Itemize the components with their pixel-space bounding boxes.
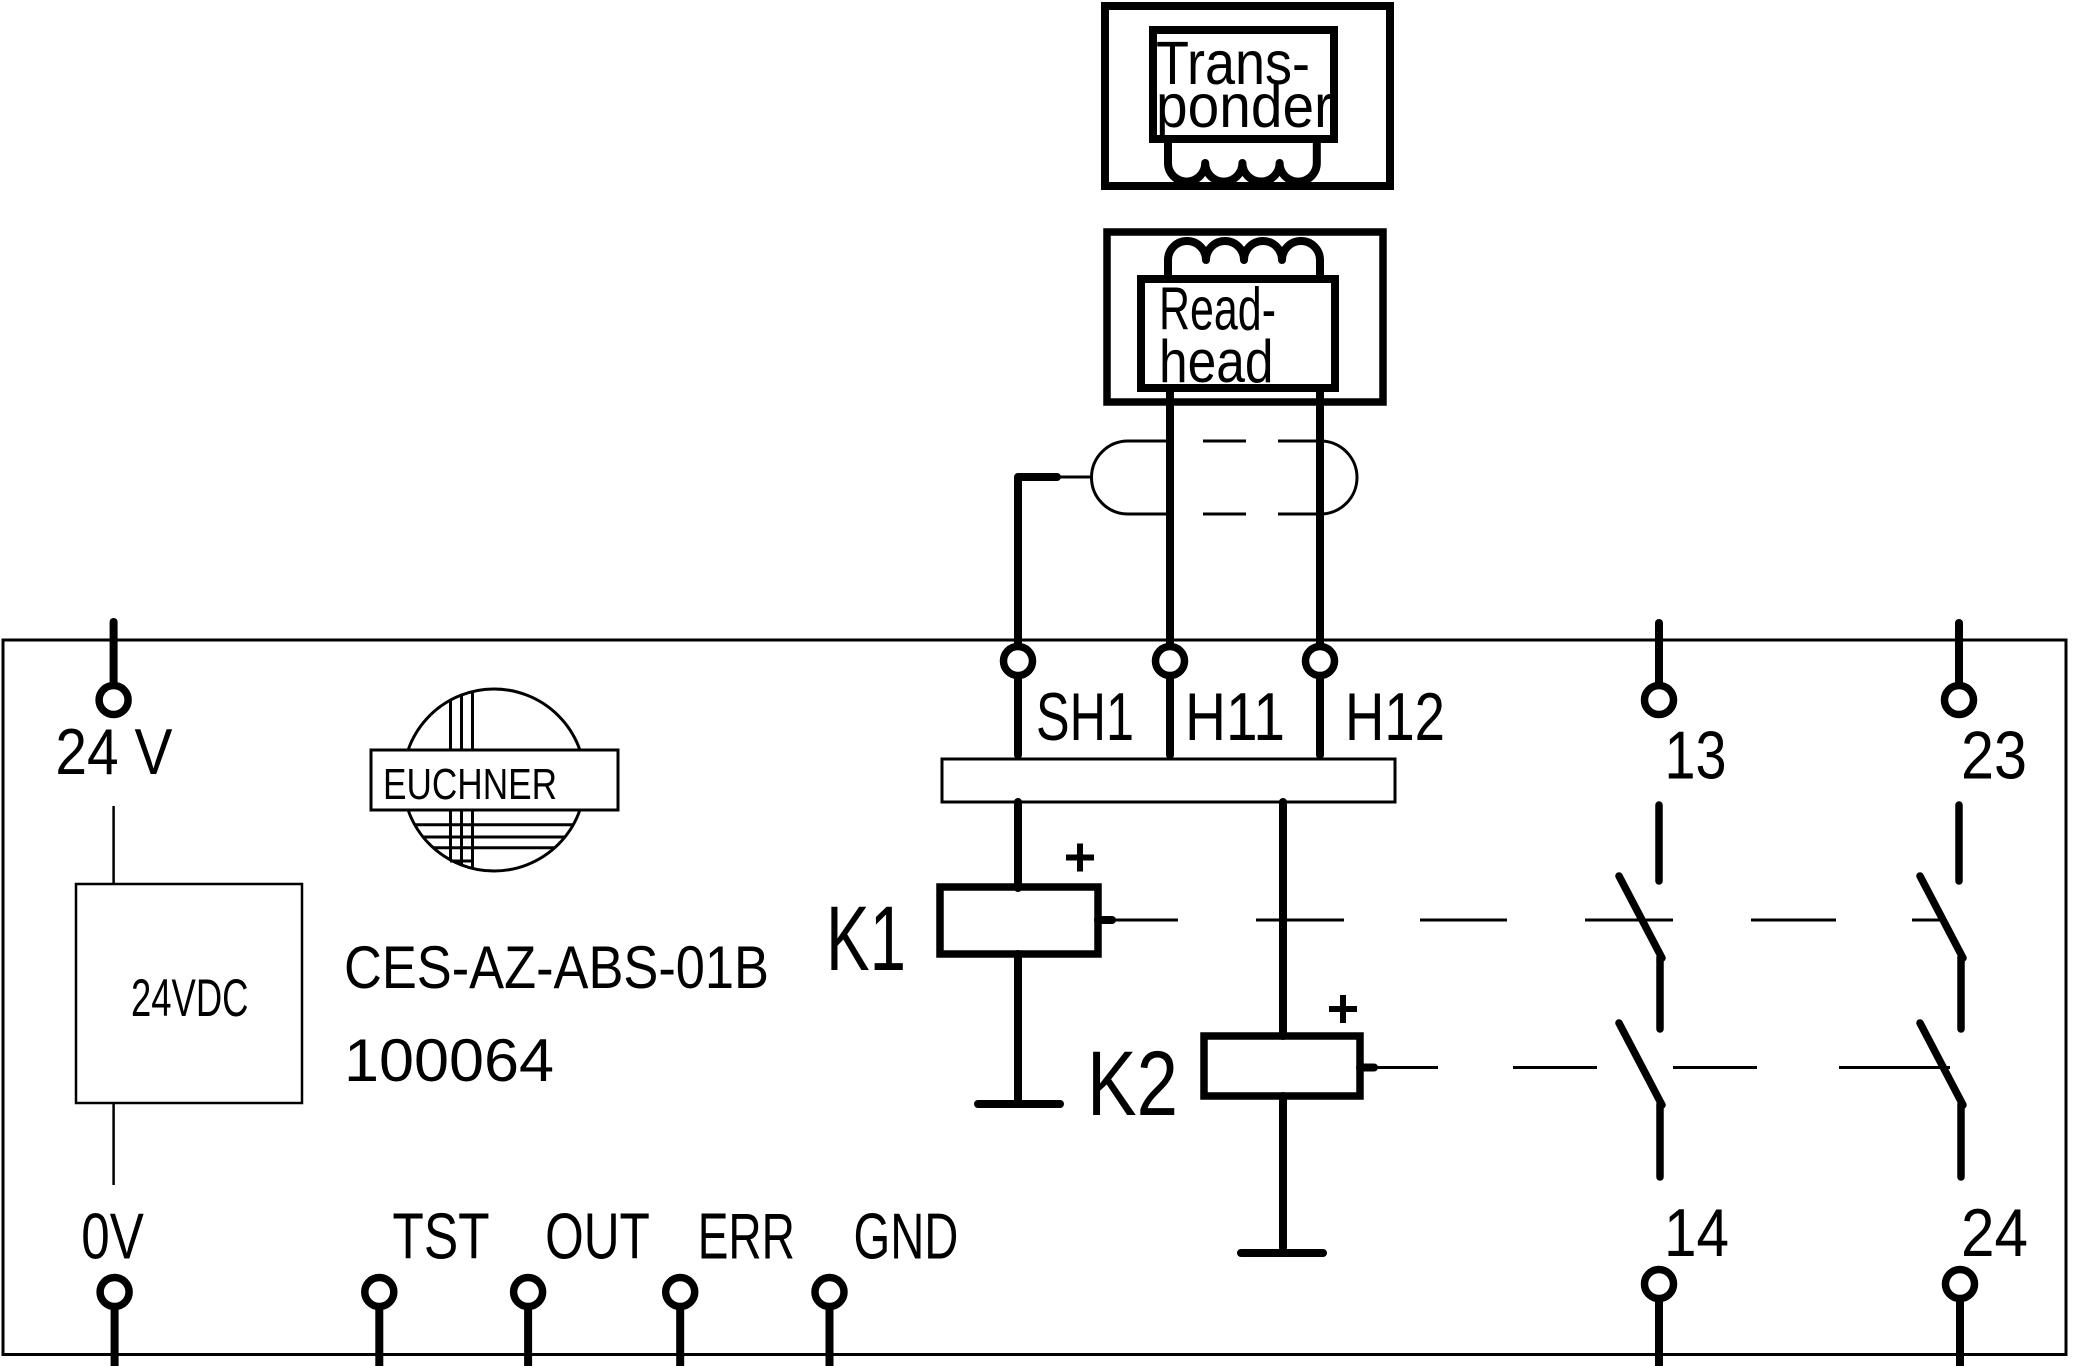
- terminal OUT: [514, 1278, 543, 1307]
- junction bar: [942, 759, 1395, 802]
- terminal SH1: [1004, 647, 1033, 676]
- read head outer box: [1107, 232, 1383, 402]
- terminal GND: [815, 1278, 844, 1307]
- wire 0V stem: [111, 1308, 119, 1366]
- terminal 24V: [99, 686, 128, 715]
- transponder outer box: [1105, 6, 1390, 186]
- power supply box: [76, 884, 302, 1103]
- contact 23-24: [1920, 805, 1963, 1177]
- svg-text:EUCHNER: EUCHNER: [383, 760, 557, 809]
- svg-text:24 V: 24 V: [55, 715, 173, 788]
- main device box: [3, 640, 2066, 1355]
- EUCHNER logo: [371, 689, 618, 871]
- svg-text:14: 14: [1664, 1195, 1729, 1271]
- ground K1: [978, 954, 1060, 1104]
- svg-text:H11: H11: [1185, 679, 1285, 755]
- contact 13-14: [1619, 805, 1662, 1177]
- wire ERR stem: [676, 1308, 684, 1366]
- wire H11 read head to terminal: [1166, 390, 1174, 755]
- read head coil L2: [1168, 241, 1320, 281]
- terminal H11: [1156, 647, 1185, 676]
- terminal 14: [1645, 1270, 1674, 1299]
- svg-text:24: 24: [1961, 1195, 2028, 1271]
- svg-text:CES-AZ-ABS-01B: CES-AZ-ABS-01B: [344, 934, 769, 1001]
- svg-text:GND: GND: [854, 1200, 959, 1273]
- svg-text:H12: H12: [1345, 679, 1445, 755]
- wire H12 read head to terminal: [1316, 390, 1324, 755]
- wire SH1 shield drain: [1018, 477, 1092, 755]
- wire PSU to 0V: [112, 1103, 115, 1185]
- terminal 0V: [100, 1278, 129, 1307]
- svg-text:SH1: SH1: [1036, 679, 1134, 755]
- wire 24V stub: [110, 622, 118, 682]
- mechanical linkage K2: [1360, 1064, 1950, 1072]
- read head label box: [1141, 279, 1335, 388]
- terminal TST: [365, 1278, 394, 1307]
- svg-text:ERR: ERR: [698, 1200, 795, 1273]
- wire TST stem: [375, 1308, 383, 1366]
- svg-text:TST: TST: [392, 1200, 489, 1273]
- transponder label box: [1153, 30, 1334, 139]
- terminal H12: [1306, 647, 1335, 676]
- wire 13 stub: [1655, 623, 1663, 685]
- wire 24 stem: [1956, 1300, 1964, 1366]
- svg-text:13: 13: [1665, 718, 1727, 794]
- relay coil K1: [940, 887, 1098, 954]
- wire bar to K2: [1279, 802, 1287, 1036]
- ground K2: [1241, 1096, 1323, 1253]
- transponder coil L1: [1168, 139, 1317, 182]
- svg-text:K1: K1: [826, 888, 906, 990]
- svg-text:24VDC: 24VDC: [131, 969, 249, 1028]
- terminal 13: [1645, 686, 1674, 715]
- terminal ERR: [666, 1278, 695, 1307]
- svg-text:23: 23: [1961, 718, 2027, 794]
- wire GND stem: [826, 1308, 834, 1366]
- svg-text:OUT: OUT: [545, 1200, 650, 1273]
- transponder label text: [1156, 29, 1333, 140]
- svg-text:ponder: ponder: [1156, 72, 1333, 140]
- cable shield: [1092, 441, 1358, 514]
- wire 14 stem: [1655, 1300, 1663, 1366]
- plus K1: [1066, 844, 1094, 872]
- wire bar to K1: [1014, 802, 1022, 888]
- terminal 24: [1946, 1270, 1975, 1299]
- svg-text:head: head: [1159, 328, 1274, 395]
- plus K2: [1329, 995, 1357, 1023]
- svg-text:0V: 0V: [81, 1200, 144, 1273]
- svg-text:100064: 100064: [344, 1027, 554, 1094]
- wire 23 stub: [1955, 623, 1963, 685]
- wire 24V to PSU: [112, 806, 115, 884]
- svg-text:K2: K2: [1087, 1033, 1178, 1135]
- read head label text: [1159, 276, 1276, 396]
- terminal 23: [1945, 686, 1974, 715]
- wire OUT stem: [524, 1308, 532, 1366]
- mechanical linkage K1: [1098, 916, 1943, 924]
- relay coil K2: [1204, 1036, 1360, 1096]
